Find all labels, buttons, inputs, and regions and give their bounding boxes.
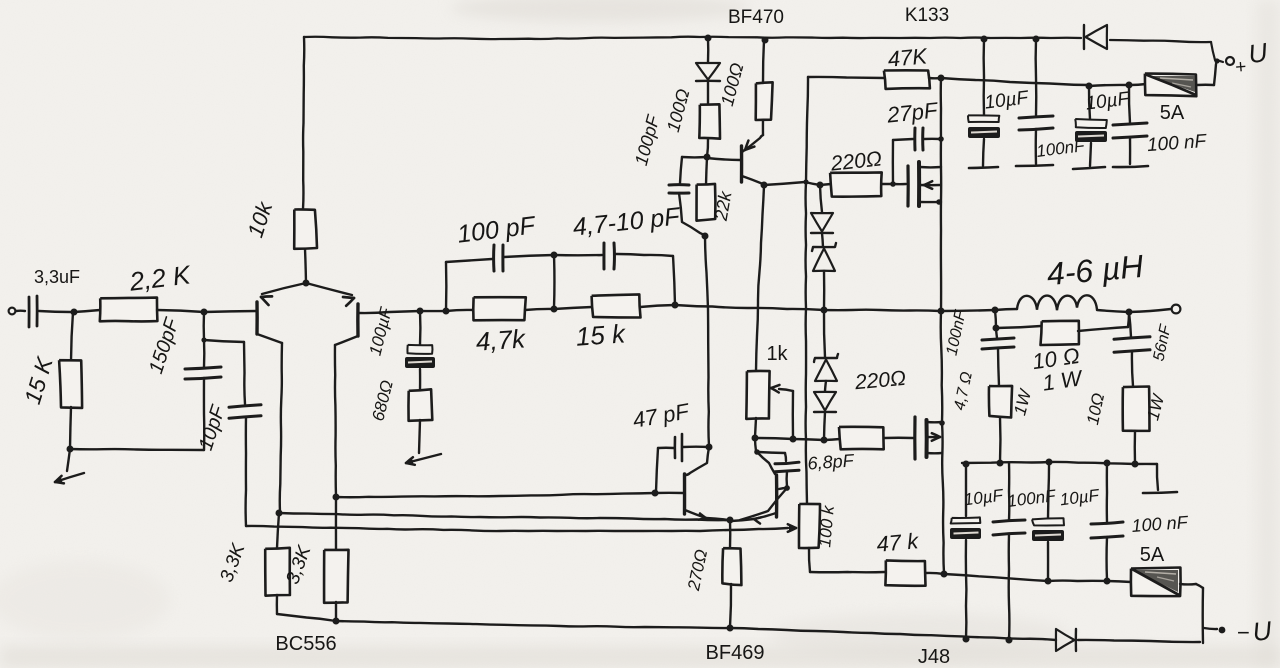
capacitor 6,8pF xyxy=(740,452,799,520)
label 10 ohm parallel xyxy=(1031,343,1085,396)
potentiometer 100k xyxy=(799,504,820,548)
wire node M to Q5 base xyxy=(707,158,740,160)
capacitor 100nF low4 xyxy=(1091,463,1123,580)
fuse 5A upper xyxy=(1145,74,1196,97)
ground G3 xyxy=(1143,492,1177,493)
wire R15k to node K xyxy=(640,305,675,307)
resistor 47k low xyxy=(885,560,925,585)
node E xyxy=(443,308,450,315)
wire 47K corner xyxy=(808,77,885,78)
label 100k xyxy=(815,503,838,548)
wire main E to R4,7k xyxy=(446,310,473,311)
svg-text:100 k: 100 k xyxy=(815,503,838,548)
capacitor 10uF low1 xyxy=(950,464,981,639)
transistor Q4 driver right xyxy=(731,438,777,524)
wire 22k down to 47pF node xyxy=(705,236,709,446)
label 220 lower xyxy=(853,367,907,394)
wire input to R 2,2K xyxy=(74,310,100,312)
node AP xyxy=(821,437,828,444)
label 100nF sup4 xyxy=(1146,131,1208,156)
wire drain rail 2 xyxy=(1089,85,1129,86)
label 10uF low3 xyxy=(1059,486,1102,510)
wire 47K to drain rail xyxy=(929,77,941,80)
label BC556 xyxy=(275,633,336,655)
inductor 4-6uH xyxy=(1017,295,1097,310)
node AL bottom rail xyxy=(727,625,734,632)
svg-text:−: − xyxy=(1237,620,1250,645)
node AB2 xyxy=(993,325,1000,332)
resistor 3,3K right xyxy=(324,550,348,603)
label 4,7k xyxy=(475,323,528,356)
wire J48 column xyxy=(941,312,944,573)
resistor 10 parallel xyxy=(996,313,1129,345)
node O xyxy=(702,233,709,240)
label 4-6 uH xyxy=(1045,248,1145,292)
resistor 220 lower xyxy=(824,427,913,450)
svg-text:5A: 5A xyxy=(1140,544,1165,566)
label 1W right xyxy=(1143,391,1168,422)
terminal -U xyxy=(1204,627,1225,634)
wire node I down xyxy=(553,255,556,308)
node W xyxy=(1086,83,1093,90)
resistor 15K xyxy=(59,360,82,408)
wire mid line xyxy=(962,462,1135,464)
svg-text:47K: 47K xyxy=(887,43,929,71)
label 100nF zobel xyxy=(944,308,970,357)
resistor 22k xyxy=(697,157,716,221)
label 10 right xyxy=(1083,391,1108,426)
diode D4 xyxy=(814,392,836,412)
transistor Q5 BF470 xyxy=(742,119,764,184)
wire base Q3 xyxy=(655,492,683,495)
node diff emitters xyxy=(303,280,310,287)
node H bottom xyxy=(333,618,340,625)
capacitor 10uF sup1 xyxy=(968,39,1000,168)
label BF470 xyxy=(728,7,784,28)
capacitor 100uF xyxy=(405,311,435,390)
label 47K xyxy=(887,43,929,71)
wire column top xyxy=(820,185,822,212)
wire bottom rail main xyxy=(336,621,1056,640)
node AF xyxy=(1046,459,1053,466)
wire 22k-47pF junction xyxy=(708,446,711,447)
label 10k xyxy=(242,198,277,240)
wire node C down xyxy=(67,449,70,471)
wire line A feedback xyxy=(336,493,655,497)
svg-text:J48: J48 xyxy=(918,646,950,668)
wire R10 down xyxy=(1134,431,1137,463)
node N rail xyxy=(762,37,769,44)
wire R100 to node M xyxy=(707,139,708,157)
svg-text:5A: 5A xyxy=(1160,102,1185,124)
svg-text:100 nF: 100 nF xyxy=(1131,512,1189,536)
resistor 4,7 zobel xyxy=(989,386,1012,418)
node input A xyxy=(71,309,78,316)
wire neg line 3 xyxy=(1107,581,1131,582)
wire node E up xyxy=(446,259,492,311)
terminal input xyxy=(9,308,25,315)
wire R3,3K right to bottom rail xyxy=(335,602,337,621)
label 4,7 zobel xyxy=(951,370,976,412)
wire node B2 to capacitor 10pF xyxy=(204,340,245,404)
wire K133 drain-source column xyxy=(940,78,943,311)
label 22k xyxy=(711,189,736,223)
diode D5 supply rail xyxy=(1084,25,1107,49)
wire to fuse xyxy=(1129,84,1146,85)
label 47k low xyxy=(876,528,921,557)
wire R2,2K to node B xyxy=(157,310,204,312)
wire node D to node E xyxy=(420,310,446,313)
capacitor 100nF low2 xyxy=(993,463,1025,640)
wire R680 to ground xyxy=(419,420,420,453)
node AK emitters xyxy=(727,517,734,524)
capacitor 10pF xyxy=(229,405,261,418)
svg-text:4,7k: 4,7k xyxy=(475,323,528,356)
node Y rail xyxy=(981,36,988,43)
label 3,3K left xyxy=(216,540,250,585)
resistor 2,2K xyxy=(100,298,158,322)
resistor 10K xyxy=(294,209,317,248)
label 5A lower xyxy=(1140,544,1165,566)
wire output line xyxy=(941,310,995,311)
svg-text:U: U xyxy=(1251,615,1273,647)
node Q x805 xyxy=(803,179,808,184)
wire top rail to R 10K xyxy=(303,37,304,209)
wire R15K to gnd node xyxy=(70,407,71,449)
node J xyxy=(551,306,558,313)
node F xyxy=(276,510,283,517)
svg-text:BC556: BC556 xyxy=(275,633,336,655)
terminal +U xyxy=(1214,57,1234,65)
capacitor 100nF sup4 xyxy=(1113,85,1148,167)
terminal output xyxy=(1172,305,1181,314)
resistor 270 xyxy=(722,520,741,627)
wire D4 to gate line xyxy=(824,412,825,440)
resistor 3,3K left xyxy=(265,548,290,596)
resistor 47K xyxy=(884,70,930,89)
svg-text:15 k: 15 k xyxy=(575,318,628,351)
label 100nF low2 xyxy=(1006,486,1058,511)
capacitor 100pF comp xyxy=(494,245,503,271)
capacitor 27pF xyxy=(893,128,940,184)
node AB xyxy=(992,307,999,314)
node B xyxy=(201,309,208,316)
node AT xyxy=(1006,637,1013,644)
capacitor 10uF sup3 xyxy=(1073,86,1107,169)
wire line B emitters xyxy=(279,513,729,520)
transistor Q1 BC556 left xyxy=(257,283,306,343)
wire AB-AB2 xyxy=(995,310,996,328)
label 2,2 K xyxy=(127,259,194,296)
label 100 first xyxy=(663,86,694,134)
resistor 10 right xyxy=(1123,387,1150,431)
wire trimmer to 47k xyxy=(809,548,885,572)
wire top supply rail xyxy=(304,37,1223,62)
node Z rail xyxy=(1033,36,1040,43)
wire main to bias column xyxy=(675,305,940,311)
capacitor 56nF right xyxy=(1114,312,1150,386)
wire neg line xyxy=(944,574,1048,581)
resistor 15k xyxy=(592,294,641,317)
label 100 pF comp xyxy=(456,211,538,248)
capacitor 3,3uF xyxy=(29,296,74,327)
wire Q2 collector down xyxy=(335,345,336,496)
svg-text:220Ω: 220Ω xyxy=(853,367,907,394)
diode D7 bottom xyxy=(1056,629,1076,651)
capacitor 150pF xyxy=(185,367,221,379)
potentiometer 1k xyxy=(746,371,793,438)
label +U xyxy=(1234,37,1269,79)
wire R10K to emitters node xyxy=(305,249,306,283)
node AR xyxy=(1104,578,1111,585)
label 100pF base xyxy=(631,112,664,167)
node AN xyxy=(752,435,759,442)
label 5A upper xyxy=(1160,102,1185,124)
node AC xyxy=(1126,309,1133,316)
wire R100b to rail xyxy=(763,40,764,83)
node M xyxy=(704,154,711,161)
label 1W zobel xyxy=(1010,386,1035,417)
label K133 xyxy=(905,5,949,26)
wire node B to Q1 base xyxy=(204,311,257,312)
node AQ xyxy=(1045,578,1052,585)
wire 100pF to node I xyxy=(504,255,554,257)
svg-text:K133: K133 xyxy=(905,5,949,26)
label -U xyxy=(1237,615,1274,647)
diode D3 zener xyxy=(814,354,838,381)
label 1k xyxy=(766,343,788,365)
wire main node to D3 xyxy=(824,310,825,357)
label 10uF sup3 xyxy=(1084,88,1131,114)
label BF469 xyxy=(706,642,765,664)
label 100 second xyxy=(717,60,748,108)
transistor Q3 driver left xyxy=(685,474,730,520)
label 47 pF xyxy=(631,398,692,433)
wire Q5 collector down to pot xyxy=(756,186,764,371)
node AI xyxy=(706,444,713,451)
wire R220 to gate node xyxy=(882,183,893,185)
wire node J to R15k xyxy=(554,307,592,309)
capacitor 100pF base xyxy=(669,157,707,236)
svg-text:47 k: 47 k xyxy=(876,528,921,557)
node AJ xyxy=(652,490,659,497)
wire D3-D4 xyxy=(825,381,826,391)
label J48 xyxy=(918,646,950,668)
wire D1-D2 xyxy=(822,233,823,247)
wire node A to R 15K xyxy=(71,312,73,361)
wire mid to ground xyxy=(1135,464,1158,490)
wire R3,3K left to bottom rail xyxy=(277,595,336,621)
label 27pF xyxy=(885,97,940,127)
ground G1 xyxy=(55,473,84,483)
resistor 4,7k xyxy=(473,297,526,320)
node D xyxy=(417,308,424,315)
node R column top xyxy=(817,182,824,189)
node L top rail xyxy=(705,35,712,42)
label 15 K xyxy=(19,353,58,407)
wire to inductor xyxy=(995,309,1017,310)
label 10uF low1 xyxy=(963,486,1006,510)
wire to capacitor 150pF xyxy=(203,340,206,367)
wire D2 to main node xyxy=(823,271,826,309)
wire neg line 2 xyxy=(1048,579,1107,582)
wire zobel down xyxy=(999,417,1002,462)
node AE xyxy=(997,460,1004,467)
node V drain rail xyxy=(938,75,945,82)
label 150pF xyxy=(145,314,184,376)
wire AI to Q3 collector xyxy=(686,447,709,475)
capacitor 100nF zobel xyxy=(982,328,1014,386)
wire driver line xyxy=(764,182,820,185)
node P collector xyxy=(761,182,768,189)
label 4,7-10 pF xyxy=(571,202,682,241)
label 220 upper xyxy=(829,147,883,175)
svg-text:BF469: BF469 xyxy=(706,642,765,664)
label 10uF sup1 xyxy=(983,87,1030,113)
label 56nF xyxy=(1150,322,1174,362)
capacitor 4,7-10pF xyxy=(554,243,675,305)
label 680 xyxy=(368,378,396,423)
wire node F to R 3,3K left xyxy=(277,513,279,548)
wire gate lead K133 xyxy=(893,183,906,186)
wire R4,7k to node J xyxy=(525,309,554,310)
diode D6 xyxy=(696,38,720,104)
transistor J48 xyxy=(915,417,945,459)
capacitor 10uF low3 xyxy=(1032,462,1064,580)
ground G2 xyxy=(406,454,441,465)
resistor 100 second xyxy=(756,82,773,120)
svg-text:3,3uF: 3,3uF xyxy=(34,267,80,287)
svg-text:+: + xyxy=(1234,57,1247,79)
label 6,8pF xyxy=(807,450,855,473)
node G xyxy=(333,494,340,501)
node AO xyxy=(790,436,797,443)
label 15 k xyxy=(575,318,628,351)
svg-text:100 nF: 100 nF xyxy=(1146,131,1208,156)
wire Q2 base to node D xyxy=(359,311,420,313)
node U main-column xyxy=(821,307,828,314)
wire Q1 collector down xyxy=(280,343,282,512)
node AH xyxy=(1132,461,1139,468)
wire diode to -U xyxy=(1078,640,1200,642)
transistor Q2 BC556 right xyxy=(306,283,358,345)
svg-text:1k: 1k xyxy=(766,343,788,365)
label 3,3uF xyxy=(34,267,80,287)
capacitor 100nF sup2 xyxy=(1016,39,1053,166)
wire bottom rail xyxy=(0,0,1,1)
node K xyxy=(672,302,679,309)
label 270 xyxy=(684,548,711,593)
label 3,3K right xyxy=(282,542,316,587)
node I xyxy=(551,252,558,259)
node C xyxy=(67,446,74,453)
wire inductor to node AC xyxy=(1097,310,1129,312)
node T drain line xyxy=(938,136,944,142)
node AD xyxy=(963,461,970,468)
resistor 220 upper xyxy=(820,172,882,196)
node AA output xyxy=(938,308,945,315)
wire 47k to node AM xyxy=(926,573,944,574)
wire fuse to +U xyxy=(1197,64,1216,85)
wire 10pF down to line C xyxy=(244,417,247,526)
transistor K133 xyxy=(908,162,942,206)
fuse 5A lower xyxy=(1131,568,1181,597)
wire line C wiper xyxy=(246,524,796,532)
wire long vertical x806 xyxy=(806,77,808,504)
diode D2 zener xyxy=(812,243,836,271)
wire node B down xyxy=(202,312,205,340)
node AS xyxy=(963,636,970,643)
wire to out terminal xyxy=(1129,309,1171,312)
wire node G to R 3,3K right xyxy=(335,497,337,550)
node S gate xyxy=(890,181,896,187)
svg-text:BF470: BF470 xyxy=(728,7,784,28)
node B2 xyxy=(201,337,206,342)
resistor 100 first xyxy=(699,104,720,138)
node AG xyxy=(1104,460,1111,467)
wire gate line J48 xyxy=(755,438,824,440)
resistor 680 xyxy=(408,389,432,421)
wire drain rail xyxy=(941,78,1089,85)
wire pot bottom xyxy=(755,418,756,437)
diode D1 xyxy=(811,213,833,233)
wire fuse to -U xyxy=(1180,584,1203,643)
svg-text:6,8pF: 6,8pF xyxy=(807,450,855,473)
node AM xyxy=(941,571,948,578)
label 10pF xyxy=(195,401,231,453)
label 100uF xyxy=(366,304,397,357)
label 100nF low4 xyxy=(1131,512,1189,536)
node X xyxy=(1126,82,1133,89)
wire 150pF to gnd line xyxy=(70,378,204,450)
label 100nF sup2 xyxy=(1035,136,1087,161)
capacitor 47pF xyxy=(656,434,709,492)
